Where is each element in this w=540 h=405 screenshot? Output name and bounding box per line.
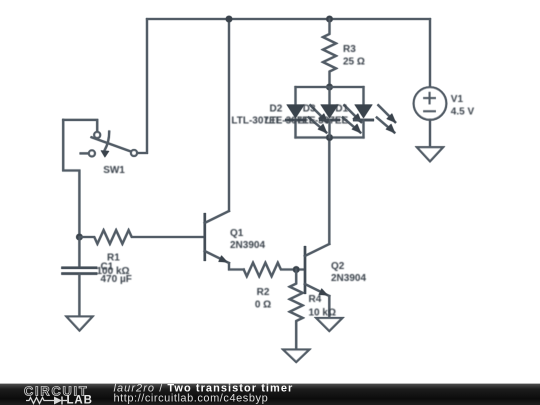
svg-text:D2: D2 — [270, 104, 283, 115]
resistor R4 — [290, 270, 303, 350]
capacitor C1 — [61, 237, 97, 317]
svg-text:2N3904: 2N3904 — [230, 240, 265, 251]
wire SW1 pivot to upper-left corner — [63, 120, 97, 132]
svg-text:D1: D1 — [335, 104, 348, 115]
wire LED box top rail — [296, 86, 364, 88]
svg-text:470 µF: 470 µF — [101, 274, 132, 285]
wire left step down to R1/C1 node — [63, 120, 79, 237]
wire Q2 emitter down to ground — [328, 296, 330, 318]
LED D1 — [353, 87, 396, 138]
voltage source V1 — [414, 87, 447, 120]
svg-text:LAB: LAB — [67, 395, 93, 405]
LED D3 — [319, 87, 362, 138]
svg-text:C1: C1 — [101, 261, 114, 272]
resistor R3 — [323, 19, 336, 87]
SW1 closed throw terminal — [131, 150, 137, 156]
ground below R4 — [283, 350, 309, 362]
node junction top rail / Q1 collector — [226, 16, 233, 23]
SW1 open throw terminal — [81, 152, 89, 154]
wire Q2 collector up to LED box — [328, 138, 330, 245]
LED D2 — [285, 87, 328, 138]
svg-text:2N3904: 2N3904 — [331, 273, 366, 284]
ground below Q2 emitter — [316, 318, 342, 331]
switch SW1 — [81, 132, 137, 158]
node junction LED rail bottom / Q2 collector — [326, 134, 333, 141]
ground below C1 — [67, 317, 93, 331]
SW1 pivot terminal — [94, 132, 100, 138]
svg-text:D3: D3 — [303, 104, 316, 115]
wire Q1 collector up to top rail — [228, 19, 230, 211]
svg-text:R4: R4 — [309, 294, 322, 305]
resistor R1 — [79, 230, 204, 244]
wire top rail — [147, 18, 430, 20]
SW1 pole bar — [92, 137, 133, 152]
SW1 actuation arrow — [105, 132, 110, 151]
component name and value labels — [97, 44, 475, 318]
svg-text:Q2: Q2 — [331, 261, 345, 272]
node junction top rail / R3 — [326, 16, 333, 23]
wire LED box bottom rail — [296, 136, 364, 138]
wire V1 bottom to ground — [429, 120, 431, 148]
svg-text:25 Ω: 25 Ω — [343, 56, 365, 67]
ground below V1 — [417, 147, 443, 161]
svg-text:SW1: SW1 — [103, 165, 125, 176]
wire V1 top — [429, 19, 431, 87]
svg-text:4.5 V: 4.5 V — [451, 107, 475, 118]
svg-text:LTL-307EE: LTL-307EE — [297, 116, 348, 127]
svg-text:0 Ω: 0 Ω — [255, 299, 271, 310]
transistor Q2 — [305, 244, 330, 296]
svg-text:R2: R2 — [257, 287, 270, 298]
node junction R2/R4/Q2 base — [293, 266, 300, 273]
wire left vertical from top rail to SW1 — [137, 19, 148, 153]
footer bar — [0, 383, 540, 405]
svg-text:Q1: Q1 — [230, 228, 244, 239]
CircuitLab logo — [24, 384, 93, 405]
svg-text:V1: V1 — [451, 94, 464, 105]
svg-text:http://circuitlab.com/c4esbyp: http://circuitlab.com/c4esbyp — [114, 392, 269, 404]
transistor Q1 — [205, 211, 229, 263]
svg-text:10 kΩ: 10 kΩ — [309, 307, 336, 318]
svg-text:R3: R3 — [343, 44, 356, 55]
node junction R3 / LED rail top — [326, 84, 333, 91]
wire Q1 emitter to R2 — [229, 263, 244, 270]
node junction R1/C1 — [76, 234, 83, 241]
resistor R2 — [244, 263, 305, 277]
